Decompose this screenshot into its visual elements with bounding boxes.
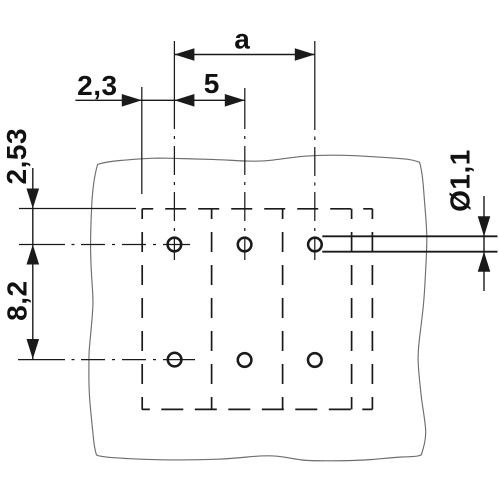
hole H6 bottom-right	[308, 353, 322, 367]
dimension 5: label	[204, 68, 220, 99]
dashed housing outline: bottom edge	[142, 408, 373, 410]
hole H5 bottom-middle	[238, 353, 252, 367]
dashed cell divider 2	[282, 209, 284, 410]
svg-text:2,53: 2,53	[1, 128, 32, 185]
svg-text:5: 5	[204, 68, 220, 99]
centerline column 3 (x=314.8)	[314, 41, 316, 260]
dimension 2,53: label (rotated)	[1, 128, 32, 185]
hole diameter tangent line upper	[322, 235, 497, 237]
centerline row 1 (y=244.5)	[19, 244, 190, 246]
dimension Ø1,1: lower arrowhead (pointing up)	[478, 252, 491, 272]
dashed cell divider 3	[351, 209, 353, 410]
dimension Ø1,1: upper arrowhead (pointing down)	[478, 216, 491, 236]
dimension 2,3: arrowhead (outside, pointing right at x=141.8)	[122, 94, 142, 107]
dashed housing outline: right edge	[371, 209, 373, 410]
dimension 5: left arrowhead	[174, 94, 194, 107]
plate outline (hand-drawn PCB edge)	[89, 155, 427, 461]
dashed housing outline: left edge	[141, 209, 143, 410]
dimension 8,2: label (rotated)	[1, 280, 32, 320]
dimension a: dimension line	[174, 54, 314, 56]
hole diameter tangent line lower	[322, 251, 497, 253]
dimension 2,53: top arrowhead (outside, pointing down at y=208.5)	[27, 189, 40, 209]
svg-text:Ø1,1: Ø1,1	[445, 149, 476, 212]
dashed housing outline: top edge	[142, 208, 372, 210]
dimension Ø1,1: label (rotated)	[445, 149, 476, 212]
svg-text:2,3: 2,3	[77, 70, 117, 101]
left dimension line (2,53 and 8,2)	[32, 168, 34, 359]
hole H3 top-right	[308, 238, 322, 252]
dimension a: label	[234, 24, 250, 55]
dimension a: left arrowhead	[174, 48, 194, 61]
dimension 2,3: label	[77, 70, 117, 101]
dimension a: right arrowhead	[295, 48, 315, 61]
dimension 2,3 / 5: shared dimension line	[75, 99, 244, 101]
centerline row 2 (y=359.6)	[18, 359, 195, 361]
shared arrowhead (pointing up at y=244.5)	[27, 245, 40, 265]
svg-text:a: a	[234, 24, 250, 55]
hole H4 bottom-left	[168, 353, 182, 367]
dimension 5: right arrowhead	[225, 94, 245, 107]
centerline column 1 (x=174.4)	[173, 41, 175, 260]
dashed cell divider 1	[211, 209, 213, 410]
hole H1 top-left	[168, 238, 182, 252]
dimension 2,3: extension line	[141, 87, 143, 194]
svg-text:8,2: 8,2	[1, 280, 32, 320]
hole H2 top-middle	[238, 238, 252, 252]
left reference line (top of housing, y=208.5)	[19, 208, 136, 210]
dimension 8,2: bottom arrowhead (pointing down at y=359)	[27, 339, 40, 359]
dimension Ø1,1: arrow shaft line	[483, 196, 485, 291]
centerline column 2 (x=244.8)	[244, 88, 246, 260]
